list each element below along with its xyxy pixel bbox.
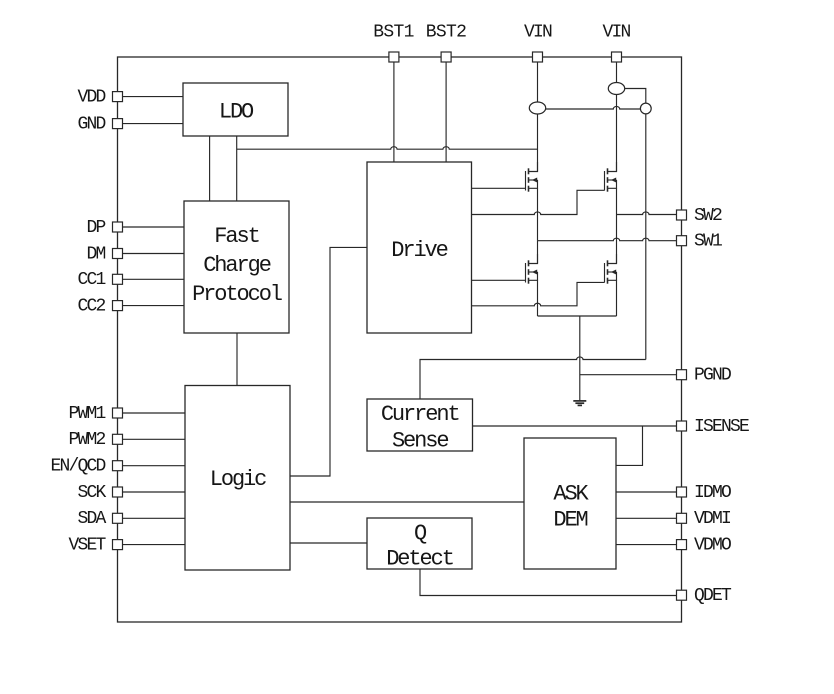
wire SW2 node to SW2 pin with hop over sense line (617, 212, 678, 215)
wire SCK pin to Logic (123, 491, 186, 493)
pin SCK (113, 487, 123, 497)
wire Q3 drain up to SW1 node (537, 241, 539, 264)
mosfet Q2 high-side right (605, 162, 617, 192)
svg-text:VIN: VIN (524, 22, 552, 42)
block LDO (183, 83, 288, 136)
pin BST2 (441, 52, 451, 62)
wire ellipse E1 to Q1 drain (537, 114, 539, 172)
svg-text:PGND: PGND (694, 366, 731, 386)
pin SW2 (677, 210, 687, 220)
svg-text:Fast: Fast (214, 224, 258, 249)
svg-text:CC1: CC1 (77, 270, 105, 290)
wire EN/QCD pin to Logic (123, 465, 186, 467)
svg-text:PWM2: PWM2 (68, 430, 105, 450)
svg-text:DEM: DEM (553, 507, 587, 532)
wire DM pin to Fast Charge Protocol (123, 253, 185, 255)
svg-text:DM: DM (86, 244, 105, 264)
wire Drive to Q2 gate with hop over Q1 source (472, 190, 605, 214)
wire Current Sense to ISENSE pin (473, 425, 678, 427)
wire CC1 pin to Fast Charge Protocol (123, 278, 185, 280)
wire LDO output to VIN rail with hops over BST1 BST2 (237, 147, 538, 150)
ground symbol (573, 401, 586, 406)
wire Q3 source to ground rail (537, 280, 539, 316)
pin BST1 (389, 52, 399, 62)
svg-text:ISENSE: ISENSE (694, 417, 749, 437)
wire VIN pin 2 down to sense ellipse (616, 62, 618, 83)
svg-text:VDD: VDD (77, 87, 105, 107)
wire Logic to Q Detect (290, 542, 367, 544)
wire Q4 drain up to SW2 node (616, 215, 618, 264)
wire Drive to Q4 gate with hop over Q3 source (472, 282, 605, 305)
svg-text:VIN: VIN (602, 22, 630, 42)
wire sense line vertical down from circle (645, 114, 647, 360)
svg-text:SW2: SW2 (694, 206, 722, 226)
pin VDMO (677, 540, 687, 550)
wire ISENSE branch to ASK DEM (616, 426, 643, 465)
wire BST1 pin to Drive (393, 62, 395, 162)
current sense element E1 on VIN1 (529, 102, 545, 114)
wire Q4 source to ground rail (616, 280, 618, 316)
svg-text:SW1: SW1 (694, 232, 722, 252)
svg-text:IDMO: IDMO (694, 483, 731, 503)
sense node circle (640, 103, 651, 114)
wire Drive to Q1 gate (472, 187, 526, 189)
svg-text:Drive: Drive (391, 238, 447, 263)
pin VDD (113, 92, 123, 102)
wire LDO to Fast Charge Protocol left (209, 136, 211, 201)
svg-text:Current: Current (381, 402, 459, 427)
svg-text:SDA: SDA (77, 509, 106, 529)
block Drive (367, 162, 472, 333)
wire Q1 source down to SW1 node (537, 188, 539, 240)
svg-text:Protocol: Protocol (192, 282, 282, 307)
svg-text:ASK: ASK (553, 481, 589, 506)
svg-text:VDMO: VDMO (694, 535, 731, 555)
wire Q Detect to QDET pin (420, 569, 677, 596)
pin VSET (113, 540, 123, 550)
wire LDO to Fast Charge Protocol right (236, 136, 238, 201)
wire SDA pin to Logic (123, 517, 186, 519)
wire ellipse E1 tap to sense circle with hop over VIN2 line (546, 106, 641, 109)
mosfet Q1 high-side left (526, 162, 538, 192)
block Logic (185, 386, 290, 571)
pin EN/QCD (113, 461, 123, 471)
pin PWM2 (113, 434, 123, 444)
pin IDMO (677, 487, 687, 497)
wire GND pin to LDO (123, 123, 184, 125)
wire PGND to pin (580, 374, 677, 376)
wire source ground rail (538, 315, 617, 317)
wire SW1 node to SW1 pin with hops over Q4 drain and sense line (538, 238, 678, 241)
svg-text:Charge: Charge (203, 253, 271, 278)
svg-text:Q: Q (414, 521, 427, 546)
svg-text:Sense: Sense (392, 428, 448, 453)
wire Q2 source down to SW2 node (616, 188, 618, 214)
svg-text:Logic: Logic (210, 467, 266, 492)
wire DP pin to Fast Charge Protocol (123, 226, 185, 228)
svg-text:QDET: QDET (694, 586, 732, 606)
svg-text:DP: DP (86, 218, 105, 238)
wire VIN pin 1 down to sense ellipse (537, 62, 539, 102)
wire Drive to Q3 gate (472, 279, 526, 281)
pin PWM1 (113, 408, 123, 418)
pin ISENSE (677, 421, 687, 431)
wire PWM1 pin to Logic (123, 412, 186, 414)
block Fast Charge Protocol (184, 201, 289, 333)
pin SW1 (677, 236, 687, 246)
svg-text:PWM1: PWM1 (68, 404, 105, 424)
svg-text:LDO: LDO (219, 99, 254, 124)
wire Logic to Drive (290, 247, 367, 476)
wire ASK DEM to VDMI pin (616, 517, 677, 519)
wire ASK DEM to IDMO pin (616, 491, 677, 493)
wire Current Sense to sense line with hop over ground stem (420, 357, 646, 399)
wire Logic to ASK DEM (290, 501, 524, 503)
pin DP (113, 222, 123, 232)
svg-text:GND: GND (77, 114, 105, 134)
svg-text:VDMI: VDMI (694, 509, 731, 529)
wire ASK DEM to VDMO pin (616, 544, 677, 546)
block ASK DEM (524, 438, 616, 569)
wire BST2 pin to Drive (445, 62, 447, 162)
wire ellipse E2 tap to sense circle (625, 89, 646, 104)
pin PGND (677, 370, 687, 380)
wire VSET pin to Logic (123, 544, 186, 546)
pin CC1 (113, 274, 123, 284)
block Current Sense (367, 399, 473, 451)
svg-text:CC2: CC2 (77, 296, 105, 316)
svg-text:BST1: BST1 (373, 22, 413, 42)
chip outer border (118, 57, 682, 622)
pin GND (113, 119, 123, 129)
mosfet Q4 low-side right (605, 254, 617, 284)
mosfet Q3 low-side left (526, 254, 538, 284)
wire ellipse E2 to Q2 drain (616, 95, 618, 172)
svg-text:VSET: VSET (68, 535, 106, 555)
current sense element E2 on VIN2 (608, 83, 624, 95)
wire CC2 pin to Fast Charge Protocol (123, 305, 185, 307)
svg-text:BST2: BST2 (426, 22, 466, 42)
wire Fast Charge Protocol to Logic (236, 333, 238, 386)
block Q Detect (367, 518, 472, 569)
pin SDA (113, 513, 123, 523)
pin VIN 2 (612, 52, 622, 62)
wire PWM2 pin to Logic (123, 438, 186, 440)
pin DM (113, 249, 123, 259)
pin QDET (677, 590, 687, 600)
wire ground stem (579, 316, 581, 401)
pin CC2 (113, 301, 123, 311)
wire VDD pin to LDO (123, 96, 184, 98)
svg-text:EN/QCD: EN/QCD (50, 457, 105, 477)
svg-text:SCK: SCK (77, 483, 106, 503)
svg-text:Detect: Detect (386, 546, 453, 571)
pin VIN 1 (533, 52, 543, 62)
pin VDMI (677, 513, 687, 523)
